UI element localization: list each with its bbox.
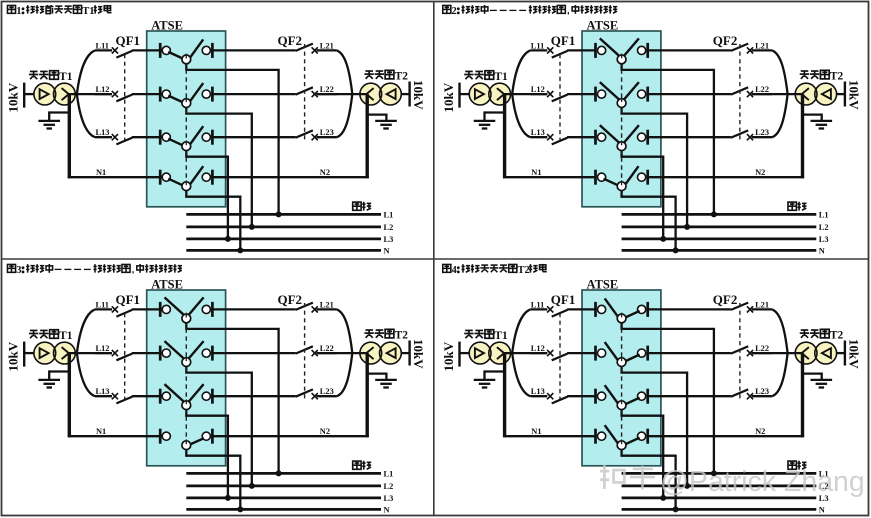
svg-text:T2: T2 xyxy=(830,71,844,83)
svg-text:2: 2 xyxy=(452,6,457,17)
svg-text:4: 4 xyxy=(452,265,458,276)
svg-text:10kV: 10kV xyxy=(6,82,21,112)
svg-text:QF2: QF2 xyxy=(278,33,303,48)
svg-text:L13: L13 xyxy=(531,387,545,396)
svg-text:N2: N2 xyxy=(320,427,330,436)
svg-text:10kV: 10kV xyxy=(847,80,862,110)
svg-text:L3: L3 xyxy=(384,494,394,503)
svg-text:L11: L11 xyxy=(531,41,545,50)
svg-text:L1: L1 xyxy=(384,210,394,219)
svg-text:QF2: QF2 xyxy=(278,292,303,307)
svg-text:L21: L21 xyxy=(755,300,769,309)
svg-text:10kV: 10kV xyxy=(441,341,456,371)
svg-text:L13: L13 xyxy=(96,387,110,396)
svg-text:N1: N1 xyxy=(96,427,106,436)
svg-text:QF1: QF1 xyxy=(116,292,141,307)
svg-text:L11: L11 xyxy=(96,41,110,50)
svg-text:T2: T2 xyxy=(395,71,409,83)
svg-text:L12: L12 xyxy=(531,344,545,353)
svg-text:QF2: QF2 xyxy=(713,292,738,307)
svg-text:10kV: 10kV xyxy=(847,339,862,369)
svg-text:N1: N1 xyxy=(531,427,541,436)
svg-text:L21: L21 xyxy=(320,41,334,50)
svg-text:L23: L23 xyxy=(755,387,769,396)
svg-text:ATSE: ATSE xyxy=(587,19,619,33)
svg-text:N2: N2 xyxy=(755,427,765,436)
svg-text:L22: L22 xyxy=(755,85,769,94)
svg-text:T1: T1 xyxy=(82,6,94,17)
svg-text:L1: L1 xyxy=(819,210,829,219)
svg-text:QF2: QF2 xyxy=(713,33,738,48)
svg-text:ATSE: ATSE xyxy=(151,19,183,33)
svg-text:10kV: 10kV xyxy=(411,339,426,369)
svg-text:L22: L22 xyxy=(320,85,334,94)
svg-text:L1: L1 xyxy=(384,469,394,478)
svg-text:L12: L12 xyxy=(96,344,110,353)
svg-text:L12: L12 xyxy=(96,85,110,94)
svg-text:L2: L2 xyxy=(384,223,394,232)
svg-text:@Patrick Zhang: @Patrick Zhang xyxy=(660,466,865,498)
svg-text:3: 3 xyxy=(16,265,21,276)
svg-text:L2: L2 xyxy=(384,482,394,491)
svg-text:L13: L13 xyxy=(531,128,545,137)
svg-text:T2: T2 xyxy=(830,330,844,342)
svg-text:N: N xyxy=(384,505,390,514)
svg-text:T1: T1 xyxy=(494,71,508,83)
svg-text:L21: L21 xyxy=(320,300,334,309)
svg-text:N: N xyxy=(384,246,390,255)
svg-text:L3: L3 xyxy=(384,235,394,244)
svg-text:QF1: QF1 xyxy=(116,33,141,48)
svg-text:L23: L23 xyxy=(320,387,334,396)
svg-text:ATSE: ATSE xyxy=(587,278,619,292)
svg-text:L11: L11 xyxy=(531,300,545,309)
svg-text:L12: L12 xyxy=(531,85,545,94)
svg-text:L22: L22 xyxy=(320,344,334,353)
svg-text:10kV: 10kV xyxy=(411,80,426,110)
svg-text:1: 1 xyxy=(16,6,21,17)
svg-text:L21: L21 xyxy=(755,41,769,50)
svg-text:N1: N1 xyxy=(96,168,106,177)
svg-text:QF1: QF1 xyxy=(551,292,576,307)
svg-text:T2: T2 xyxy=(395,330,409,342)
svg-text:ATSE: ATSE xyxy=(151,278,183,292)
svg-text:L22: L22 xyxy=(755,344,769,353)
svg-text:L23: L23 xyxy=(320,128,334,137)
svg-text:T1: T1 xyxy=(59,330,73,342)
svg-text:N: N xyxy=(819,505,825,514)
svg-text:N1: N1 xyxy=(531,168,541,177)
svg-text:N2: N2 xyxy=(320,168,330,177)
svg-text:N: N xyxy=(819,246,825,255)
svg-text:T1: T1 xyxy=(494,330,508,342)
svg-text:10kV: 10kV xyxy=(6,341,21,371)
svg-text:T2: T2 xyxy=(518,265,530,276)
svg-text:L3: L3 xyxy=(819,235,829,244)
svg-text:L23: L23 xyxy=(755,128,769,137)
svg-text:N2: N2 xyxy=(755,168,765,177)
svg-text:T1: T1 xyxy=(59,71,73,83)
svg-text:L11: L11 xyxy=(96,300,110,309)
svg-text:L13: L13 xyxy=(96,128,110,137)
svg-text:10kV: 10kV xyxy=(441,82,456,112)
svg-text:L2: L2 xyxy=(819,223,829,232)
svg-text:QF1: QF1 xyxy=(551,33,576,48)
